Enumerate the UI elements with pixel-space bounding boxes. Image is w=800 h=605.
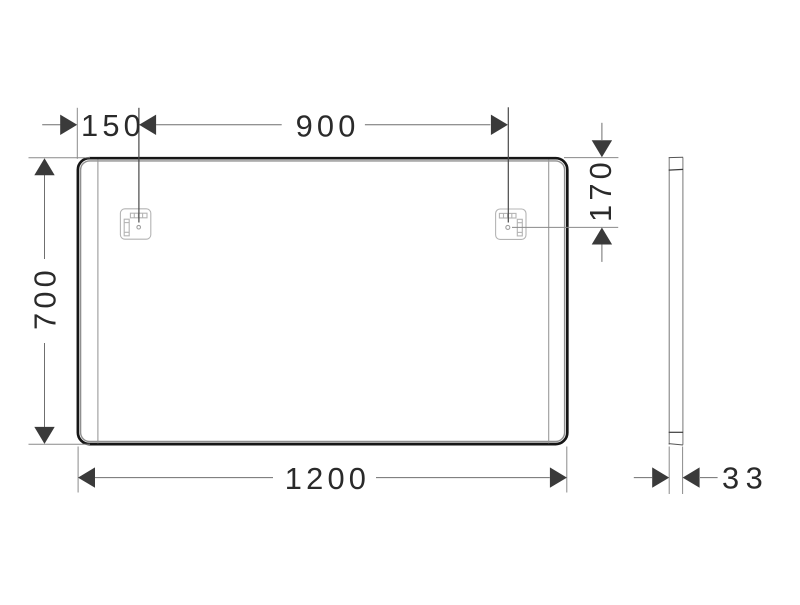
svg-text:33: 33 [722,460,769,495]
svg-text:150: 150 [81,108,145,143]
svg-text:170: 170 [583,158,618,222]
svg-text:1200: 1200 [285,461,370,496]
svg-text:900: 900 [296,108,360,143]
svg-text:700: 700 [27,266,62,330]
